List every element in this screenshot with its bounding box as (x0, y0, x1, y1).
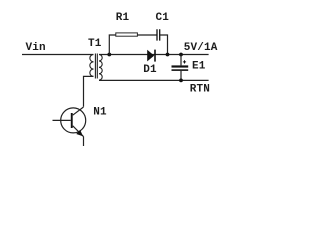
svg-text:N1: N1 (93, 107, 107, 119)
transistor N1 base lead (53, 119, 71, 121)
svg-text:C1: C1 (156, 12, 170, 24)
transformer T1 secondary winding (99, 55, 102, 81)
transistor N1 emitter diagonal (73, 126, 84, 137)
wire emitter to bottom edge (83, 137, 85, 147)
diode D1 body (147, 50, 154, 62)
capacitor E1 bottom lead (180, 71, 182, 81)
transformer T1 primary winding (90, 55, 94, 77)
diode D1 cathode bar (154, 50, 156, 62)
wire transformer primary bottom to transistor collector (84, 76, 94, 106)
transistor N1 emitter arrowhead (76, 130, 83, 136)
svg-text:R1: R1 (116, 12, 130, 24)
wire R1/C1 snubber branch up and across (109, 35, 115, 55)
transistor N1 base bar (71, 113, 73, 128)
svg-text:D1: D1 (143, 64, 157, 76)
transistor N1 collector diagonal (73, 107, 84, 115)
wire RTN net (secondary bottom to right) (99, 79, 209, 81)
capacitor C1 plates (157, 29, 160, 40)
node junction dot output top (179, 53, 183, 57)
svg-text:RTN: RTN (190, 84, 210, 96)
svg-text:5V/1A: 5V/1A (184, 42, 218, 54)
capacitor E1 top plate (172, 65, 189, 67)
transformer T1 core (95, 54, 97, 79)
svg-text:Vin: Vin (26, 42, 46, 54)
wire R1 to C1 (137, 34, 157, 36)
capacitor E1 plus sign (183, 60, 186, 63)
node junction dot C1 branch (166, 53, 170, 57)
capacitor E1 bottom plate (172, 69, 189, 71)
wire C1 down to main net (160, 35, 168, 55)
node junction dot RTN (179, 79, 183, 83)
wire Vin to transformer primary top (22, 54, 94, 56)
svg-text:T1: T1 (88, 38, 102, 50)
wire secondary top to output (main top net) (99, 54, 209, 56)
resistor R1 body (116, 33, 138, 36)
node junction dot R1 branch (107, 53, 111, 57)
transistor N1 circle (61, 108, 86, 133)
capacitor E1 top lead (180, 55, 182, 66)
svg-text:E1: E1 (192, 60, 206, 72)
